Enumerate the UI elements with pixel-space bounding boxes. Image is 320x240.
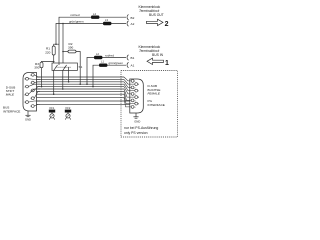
svg-text:MALE: MALE	[6, 93, 15, 97]
wire box out right	[68, 70, 70, 81]
wire R1 bottom to box	[53, 55, 55, 63]
svg-text:390: 390	[34, 66, 39, 70]
resistor R3	[34, 62, 43, 70]
wire A net tap down	[62, 24, 64, 52]
label BUS INTERFACE	[3, 106, 20, 114]
wire bus line 5 (pin 3, net A)	[37, 86, 125, 88]
svg-text:A1: A1	[131, 64, 135, 68]
clamp B2	[127, 15, 128, 20]
sleeve L3	[103, 22, 111, 25]
wire B1 rot/red to BUS IN	[87, 58, 126, 85]
wire bus line 10 (shield)	[37, 100, 130, 102]
svg-text:2: 2	[165, 21, 169, 28]
junction A1 wire to bus line 5	[92, 86, 94, 88]
svg-text:FEMALE: FEMALE	[148, 92, 161, 96]
wire A net into box	[62, 52, 64, 65]
wire bus line 11 (shield)	[37, 103, 130, 105]
svg-text:grün/green: grün/green	[109, 61, 124, 65]
resistor R2	[68, 42, 76, 53]
junction S1 mid output to bus line 6	[62, 88, 64, 90]
clamp B1	[127, 55, 128, 60]
fan right connector	[124, 77, 135, 107]
wire bus line 1 (pin 1)	[37, 76, 125, 78]
wire bus line 2 (pin 6)	[37, 78, 125, 80]
junction gruen/green corner on T bar	[55, 43, 57, 45]
wire bus line 4 (pin 7, net B)	[37, 83, 125, 85]
junction A-net tap at R2	[62, 51, 64, 53]
svg-text:GND: GND	[25, 117, 31, 121]
D-SUB female connector U2	[130, 79, 144, 113]
fan male pins to bus	[28, 75, 40, 106]
pin numbers female	[134, 81, 140, 109]
svg-text:grün/green: grün/green	[69, 19, 84, 23]
svg-text:390: 390	[68, 46, 73, 50]
wire box out left	[53, 70, 55, 94]
svg-text:S1: S1	[79, 65, 83, 69]
clamp A2	[127, 21, 128, 26]
svg-text:B1: B1	[131, 56, 135, 60]
shield clamp KF2	[65, 106, 71, 120]
svg-text:1: 1	[165, 60, 169, 67]
svg-text:INTERFACE: INTERFACE	[148, 103, 165, 107]
junction S1 left output to bus line 8	[53, 93, 55, 95]
T bar over R1	[54, 44, 59, 46]
wire R3 bottom	[41, 68, 43, 87]
svg-text:A2: A2	[131, 22, 135, 26]
wire bus line 7 (pin 4)	[37, 90, 125, 92]
pins female col left	[131, 80, 137, 109]
wire B2 rot/red to BUS OUT	[59, 17, 126, 65]
wire R2 horizontal net	[63, 51, 68, 53]
arrow out	[147, 19, 169, 28]
D-SUB male connector U1	[23, 73, 37, 112]
svg-text:rot/red: rot/red	[71, 13, 80, 17]
svg-text:220: 220	[45, 51, 50, 55]
svg-text:nur bei PS-Ausführung: nur bei PS-Ausführung	[124, 126, 158, 130]
arrow in	[147, 58, 169, 67]
svg-text:only PS version: only PS version	[124, 131, 148, 135]
ground left connector	[25, 111, 30, 117]
label D-SUB STIFT MALE	[6, 86, 16, 97]
wire A2 gruen/green to BUS OUT	[56, 24, 126, 45]
sleeve L2	[94, 56, 102, 59]
svg-text:BUS OUT: BUS OUT	[149, 13, 164, 17]
resistor R1	[45, 46, 55, 55]
junction A-net tap on gruen/green wire	[62, 23, 64, 25]
terminal block BUS OUT	[139, 5, 164, 17]
sleeve L4	[91, 16, 99, 19]
svg-text:BUS IN: BUS IN	[152, 53, 164, 57]
svg-text:GND: GND	[134, 119, 140, 123]
svg-text:KF2: KF2	[66, 106, 71, 110]
wire bus line 6 (pin 8)	[37, 88, 125, 90]
svg-text:B2: B2	[131, 16, 135, 20]
sleeve L1	[99, 64, 107, 67]
svg-text:KF1: KF1	[50, 106, 55, 110]
junction R3 bar to R1 branch	[53, 61, 55, 63]
pins male col right	[26, 73, 35, 107]
svg-text:rot/red: rot/red	[105, 53, 114, 57]
terminal block BUS IN	[139, 45, 164, 57]
ground right connector	[133, 113, 138, 118]
switch box S1	[52, 63, 77, 70]
wire A1 gruen/green to BUS IN	[93, 65, 126, 86]
shield clamp KF1	[49, 106, 55, 120]
wire bus line 3 (pin 2)	[37, 81, 125, 83]
svg-text:INTERFACE: INTERFACE	[3, 110, 20, 114]
label D-SUB BUCHSE FEMALE	[148, 84, 161, 96]
clamp A1	[127, 62, 128, 67]
wire box out mid	[62, 70, 64, 89]
junction B1 wire to bus line 4	[86, 83, 88, 85]
junction S1 right output to bus line 3	[68, 81, 70, 83]
junction R3 to bus line 5	[41, 86, 43, 88]
wire bus line 8 (pin 9)	[37, 93, 125, 95]
wire bus line 9 (pin 5)	[37, 97, 125, 99]
label PG INTERFACE	[148, 99, 165, 107]
wire R2 right corner down	[76, 52, 80, 85]
wire R3 top bar	[42, 60, 54, 63]
pin numbers male	[24, 75, 32, 108]
dashed box PS version	[121, 71, 178, 138]
note only PS version	[124, 126, 158, 135]
junction R2 branch to bus line 4	[79, 83, 81, 85]
